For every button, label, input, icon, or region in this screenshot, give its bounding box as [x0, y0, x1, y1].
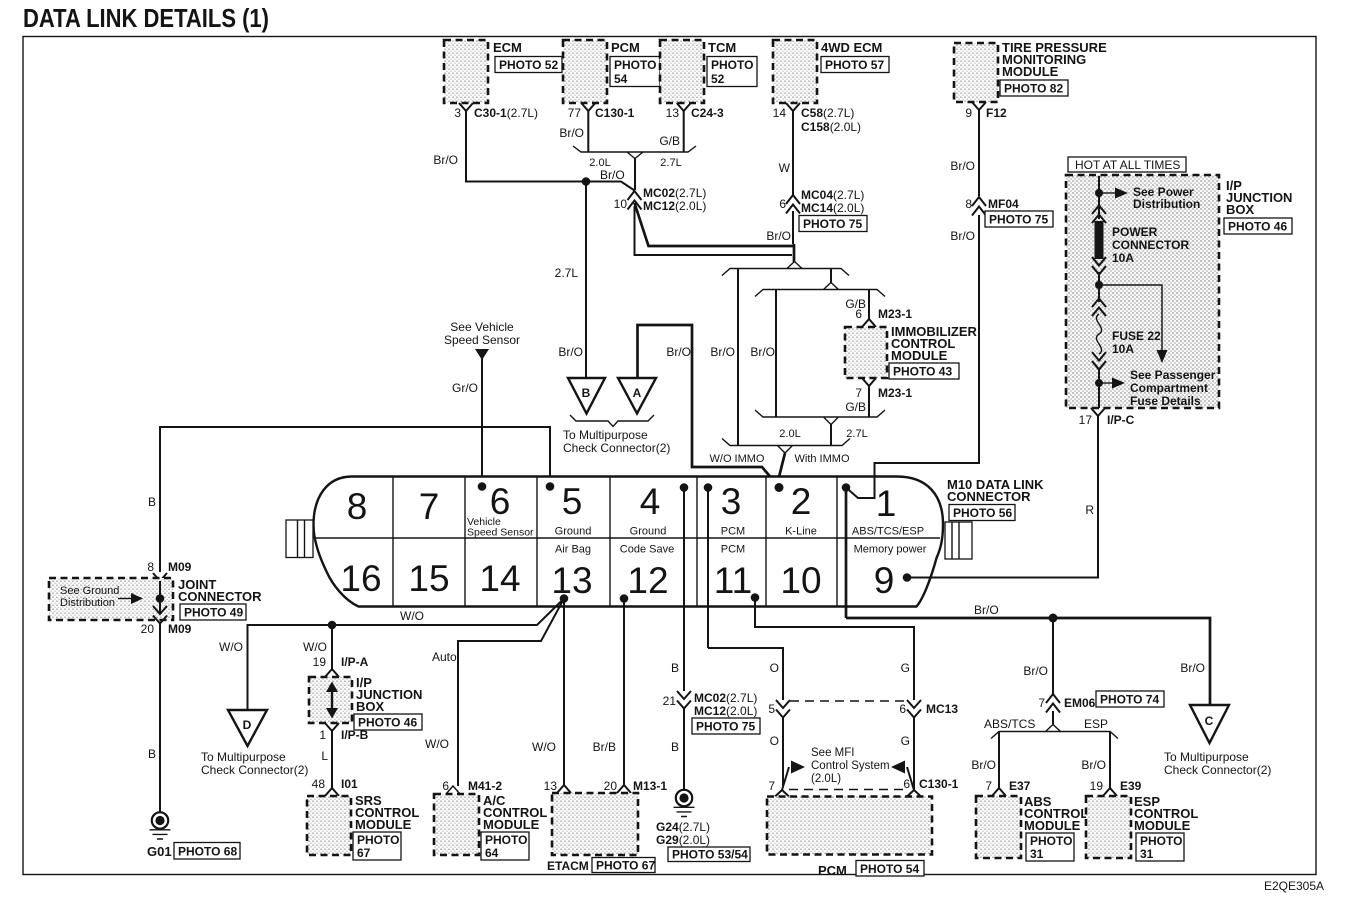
- svg-text:PHOTO 75: PHOTO 75: [989, 213, 1048, 227]
- svg-text:Br/O: Br/O: [433, 153, 458, 167]
- svg-text:11: 11: [714, 560, 752, 601]
- PCM G wire pin 11: [755, 598, 914, 701]
- wire to ground G24: [683, 708, 685, 790]
- svg-text:PHOTO: PHOTO: [1140, 834, 1182, 848]
- dashed 2.0L link 5 to 6: [790, 700, 906, 702]
- pin 19 I/P-A: [313, 655, 369, 677]
- svg-text:MC02(2.7L): MC02(2.7L): [694, 691, 757, 705]
- svg-text:Br/O: Br/O: [974, 603, 999, 617]
- svg-text:54: 54: [614, 72, 628, 86]
- wire dot to MC02: [586, 182, 635, 191]
- ABS control module box: [976, 794, 1088, 861]
- svg-text:PHOTO 75: PHOTO 75: [696, 720, 755, 734]
- code save wire to M13-1: [593, 599, 624, 786]
- Br/O memory power bottom line: [846, 603, 1210, 705]
- ECM module box: [444, 40, 562, 103]
- pin 4 wire through connector: [683, 488, 685, 692]
- svg-text:7: 7: [985, 779, 992, 793]
- svg-text:2.0L: 2.0L: [779, 428, 800, 440]
- svg-text:PCM: PCM: [611, 40, 640, 55]
- svg-text:Br/O: Br/O: [1023, 664, 1048, 678]
- svg-text:MC12(2.0L): MC12(2.0L): [643, 199, 706, 213]
- svg-text:4WD ECM: 4WD ECM: [821, 40, 882, 55]
- svg-text:G24(2.7L): G24(2.7L): [656, 820, 710, 834]
- svg-text:PCM: PCM: [818, 863, 847, 878]
- wire MC04 down to split: [792, 211, 794, 244]
- svg-text:Br/O: Br/O: [766, 229, 791, 243]
- svg-text:MC12(2.0L): MC12(2.0L): [694, 704, 757, 718]
- svg-text:6: 6: [855, 307, 862, 321]
- svg-text:8: 8: [965, 197, 972, 211]
- svg-text:MC04(2.7L): MC04(2.7L): [801, 188, 864, 202]
- svg-text:7: 7: [768, 779, 775, 793]
- triangle A: [618, 378, 656, 414]
- inline connector 21 MC02/MC12 lower: [663, 691, 760, 734]
- pin 6 M41-2: [442, 779, 502, 794]
- 4WD ECM module box: [773, 40, 889, 103]
- svg-text:Speed Sensor: Speed Sensor: [444, 333, 520, 347]
- svg-text:Ground: Ground: [630, 526, 667, 538]
- svg-text:PHOTO 46: PHOTO 46: [1228, 220, 1287, 234]
- pin contact dots: [478, 482, 487, 491]
- TCM module box: [660, 40, 757, 103]
- svg-text:12: 12: [627, 560, 668, 601]
- svg-text:G01: G01: [147, 844, 172, 859]
- svg-text:MC14(2.0L): MC14(2.0L): [801, 201, 864, 215]
- svg-text:13: 13: [666, 106, 680, 120]
- svg-text:C24-3: C24-3: [691, 106, 724, 120]
- pin 48 I01: [312, 777, 358, 796]
- TPMS module box: [954, 40, 1107, 102]
- inline connector 5: [768, 700, 790, 718]
- PCM pin connector 77 C130-1: [568, 103, 635, 120]
- svg-text:Br/O: Br/O: [1180, 661, 1205, 675]
- pin 3 wire through connector: [707, 488, 709, 649]
- svg-text:PHOTO 43: PHOTO 43: [893, 365, 952, 379]
- branch to passenger fuse arrow down: [1099, 285, 1168, 363]
- svg-text:MODULE: MODULE: [1024, 818, 1081, 833]
- svg-text:HOT AT ALL TIMES: HOT AT ALL TIMES: [1075, 158, 1180, 172]
- svg-text:I/P-C: I/P-C: [1107, 413, 1135, 427]
- svg-text:M13-1: M13-1: [633, 779, 667, 793]
- engine option merge 2.0L/2.7L: [573, 146, 696, 190]
- triangle B: [568, 378, 605, 414]
- svg-text:See MFI: See MFI: [811, 747, 854, 759]
- svg-text:64: 64: [485, 846, 499, 860]
- svg-text:10A: 10A: [1112, 251, 1134, 265]
- svg-text:FUSE 22: FUSE 22: [1112, 329, 1161, 343]
- svg-text:Br/O: Br/O: [1081, 758, 1106, 772]
- svg-text:PHOTO: PHOTO: [485, 833, 527, 847]
- svg-text:PCM: PCM: [721, 526, 745, 538]
- svg-text:Br/O: Br/O: [950, 229, 975, 243]
- svg-text:To Multipurpose: To Multipurpose: [201, 750, 286, 764]
- wire below fuse: [1098, 368, 1100, 408]
- connector right key tab: [945, 522, 972, 559]
- joint connector box: [49, 577, 262, 620]
- svg-text:14: 14: [479, 558, 520, 599]
- inline connector 6 MC04/MC14: [779, 188, 867, 232]
- A/C control module box: [434, 793, 547, 860]
- svg-text:15: 15: [408, 558, 449, 599]
- svg-text:C130-1: C130-1: [595, 106, 635, 120]
- PCM O wire pin 3: [708, 648, 783, 700]
- air bag W/O harness wire: [219, 599, 564, 711]
- svg-text:E37: E37: [1009, 779, 1031, 793]
- svg-text:B: B: [671, 661, 679, 675]
- svg-text:MF04: MF04: [988, 197, 1019, 211]
- wire C130-1 Br/O: [559, 111, 588, 152]
- svg-text:W/O: W/O: [303, 640, 327, 654]
- svg-text:PHOTO 53/54: PHOTO 53/54: [672, 848, 748, 862]
- svg-text:MODULE: MODULE: [891, 348, 948, 363]
- svg-text:3: 3: [721, 481, 742, 522]
- wire to split brace 2: [830, 269, 832, 284]
- inline connector 8 M09: [147, 560, 191, 591]
- PCM module box: [563, 40, 660, 103]
- wire to I/P-A: [303, 621, 336, 669]
- svg-text:C130-1: C130-1: [919, 777, 959, 791]
- IP box internal wire top: [1098, 176, 1100, 219]
- split ABS/TCS ESP: [984, 711, 1118, 739]
- pin 1 I/P-B: [319, 723, 368, 742]
- wire A to K-line: [638, 325, 780, 487]
- HOT AT ALL TIMES label: [1068, 157, 1186, 172]
- svg-text:MODULE: MODULE: [483, 817, 540, 832]
- svg-text:R: R: [1085, 503, 1094, 517]
- svg-text:9: 9: [874, 560, 895, 601]
- M10 title: [947, 477, 1044, 521]
- svg-text:ECM: ECM: [493, 40, 522, 55]
- svg-text:O: O: [770, 734, 779, 748]
- pin 7 PCM: [768, 779, 789, 797]
- svg-text:31: 31: [1140, 847, 1154, 861]
- svg-text:Check Connector(2): Check Connector(2): [201, 763, 308, 777]
- merge brace W/O IMMO / With IMMO: [710, 439, 851, 466]
- svg-text:MC13: MC13: [926, 702, 958, 716]
- svg-text:PHOTO: PHOTO: [1030, 834, 1072, 848]
- svg-text:Br/O: Br/O: [750, 345, 775, 359]
- svg-text:E39: E39: [1120, 779, 1142, 793]
- wire B 2.7L: [555, 182, 586, 379]
- svg-text:MODULE: MODULE: [355, 817, 412, 832]
- svg-text:Br/O: Br/O: [710, 345, 735, 359]
- svg-text:14: 14: [773, 106, 787, 120]
- svg-text:20: 20: [141, 622, 155, 636]
- svg-text:I01: I01: [341, 777, 358, 791]
- ground G01: [147, 812, 240, 859]
- underbrace B A: [563, 415, 670, 455]
- svg-text:PHOTO 54: PHOTO 54: [860, 862, 919, 876]
- svg-text:E2QE305A: E2QE305A: [1264, 879, 1324, 893]
- inline connector 8 MF04: [950, 197, 1053, 243]
- svg-text:Br/O: Br/O: [971, 758, 996, 772]
- svg-text:CONNECTOR: CONNECTOR: [178, 589, 262, 604]
- I/P junction box small: [309, 675, 422, 730]
- svg-text:W: W: [779, 161, 791, 175]
- connector left key tab: [286, 520, 313, 558]
- svg-text:B: B: [671, 740, 679, 754]
- svg-text:PHOTO: PHOTO: [711, 58, 753, 72]
- svg-text:52: 52: [711, 72, 725, 86]
- triangle D: [201, 710, 308, 777]
- svg-text:C30-1(2.7L): C30-1(2.7L): [474, 106, 538, 120]
- TPMS pin connector 9 F12: [965, 102, 1007, 120]
- svg-text:M23-1: M23-1: [878, 307, 912, 321]
- svg-text:Speed Sensor: Speed Sensor: [467, 527, 534, 539]
- svg-text:F12: F12: [986, 106, 1007, 120]
- svg-text:Air Bag: Air Bag: [555, 544, 591, 556]
- svg-text:PHOTO: PHOTO: [614, 58, 656, 72]
- svg-text:13: 13: [551, 560, 592, 601]
- svg-text:PHOTO 67: PHOTO 67: [596, 859, 655, 873]
- svg-text:31: 31: [1030, 847, 1044, 861]
- wire to fuse junction: [1098, 272, 1100, 302]
- wire O to PCM pin 7: [770, 717, 783, 786]
- svg-text:Br/O: Br/O: [666, 345, 691, 359]
- svg-text:Br/B: Br/B: [593, 740, 616, 754]
- wire C24-3 G/B: [659, 111, 683, 152]
- inline connector 6 MC13: [899, 700, 958, 718]
- wire Br/O branch 2.0L: [750, 290, 776, 418]
- svg-text:MODULE: MODULE: [1002, 64, 1059, 79]
- svg-text:PHOTO 57: PHOTO 57: [825, 58, 884, 72]
- svg-text:5: 5: [562, 481, 583, 522]
- svg-text:W/O: W/O: [532, 740, 556, 754]
- pin 7 E37: [985, 779, 1030, 796]
- svg-text:D: D: [243, 718, 252, 732]
- svg-text:PHOTO 75: PHOTO 75: [803, 217, 862, 231]
- svg-text:Br/O: Br/O: [558, 345, 583, 359]
- svg-text:M09: M09: [168, 622, 192, 636]
- air bag wire to ETACM 13: [532, 599, 564, 786]
- ECM pin connector 3 C30-1: [454, 103, 538, 120]
- svg-text:W/O: W/O: [219, 640, 243, 654]
- svg-text:With IMMO: With IMMO: [795, 453, 850, 465]
- fuse 22 10A: [1092, 299, 1161, 370]
- ground wire B pin4 labels: [671, 661, 679, 754]
- svg-text:10: 10: [780, 560, 821, 601]
- pin 1 hook wire: [846, 215, 979, 498]
- TCM pin connector 13 C24-3: [666, 103, 724, 120]
- svg-text:13: 13: [544, 779, 558, 793]
- svg-text:Br/O: Br/O: [950, 159, 975, 173]
- svg-text:BOX: BOX: [1226, 202, 1255, 217]
- svg-text:19: 19: [1090, 779, 1104, 793]
- svg-text:To Multipurpose: To Multipurpose: [1164, 750, 1249, 764]
- svg-text:2.7L: 2.7L: [555, 266, 579, 280]
- svg-text:G/B: G/B: [845, 400, 866, 414]
- pin 20 M13-1: [604, 779, 668, 793]
- SRS control module box: [307, 793, 419, 860]
- pin 1 memory power down wire: [845, 488, 848, 619]
- svg-text:PHOTO 49: PHOTO 49: [184, 606, 243, 620]
- svg-text:Compartment: Compartment: [1130, 381, 1208, 395]
- triangle C: [1164, 705, 1271, 777]
- svg-text:Br/O: Br/O: [600, 168, 625, 182]
- vehicle speed sensor arrow: [444, 320, 520, 360]
- svg-text:6: 6: [903, 777, 910, 791]
- svg-text:PHOTO: PHOTO: [357, 833, 399, 847]
- svg-text:4: 4: [640, 481, 661, 522]
- merge brace 2.0L/2.7L with IMMO: [755, 410, 885, 440]
- svg-text:EM06: EM06: [1064, 696, 1096, 710]
- svg-text:21: 21: [663, 694, 677, 708]
- inline connector 10 MC02/MC12: [614, 186, 707, 213]
- wire Br/O to E37: [971, 732, 999, 789]
- svg-text:19: 19: [313, 655, 327, 669]
- svg-text:C58(2.7L): C58(2.7L): [801, 106, 854, 120]
- svg-text:C158(2.0L): C158(2.0L): [801, 120, 861, 134]
- svg-text:Gr/O: Gr/O: [452, 381, 478, 395]
- svg-text:B: B: [148, 747, 156, 761]
- ESP control module box: [1086, 794, 1198, 861]
- M10 data link connector body: [314, 477, 944, 607]
- see power distribution arrow: [1095, 185, 1200, 211]
- svg-text:MC02(2.7L): MC02(2.7L): [643, 186, 706, 200]
- power connector 10A: [1092, 206, 1189, 275]
- svg-text:2: 2: [791, 481, 812, 522]
- svg-text:PCM: PCM: [721, 544, 745, 556]
- svg-text:7: 7: [1038, 696, 1045, 710]
- svg-text:1: 1: [876, 483, 897, 524]
- wire ECM Br/O: [433, 111, 583, 182]
- svg-text:BOX: BOX: [356, 699, 385, 714]
- split brace 1: [722, 262, 849, 276]
- wire B to G01: [148, 623, 160, 812]
- svg-text:M23-1: M23-1: [878, 386, 912, 400]
- svg-text:I/P-A: I/P-A: [341, 655, 369, 669]
- svg-text:G/B: G/B: [659, 134, 680, 148]
- svg-text:6: 6: [899, 702, 906, 716]
- wire Br/O to E39: [1081, 732, 1110, 789]
- svg-text:B: B: [582, 386, 591, 400]
- svg-text:DATA LINK DETAILS (1): DATA LINK DETAILS (1): [23, 3, 269, 33]
- svg-text:W/O IMMO: W/O IMMO: [710, 453, 765, 465]
- svg-text:Code Save: Code Save: [620, 544, 674, 556]
- wire G/B to immobilizer: [845, 290, 869, 320]
- svg-text:TCM: TCM: [708, 40, 736, 55]
- svg-text:B: B: [148, 495, 156, 509]
- svg-text:ESP: ESP: [1084, 717, 1108, 731]
- svg-text:6: 6: [442, 779, 449, 793]
- pin 6 M23-1: [855, 307, 912, 327]
- svg-text:PHOTO 74: PHOTO 74: [1100, 693, 1159, 707]
- pin 9 wire R: [907, 416, 1098, 578]
- svg-text:6: 6: [779, 197, 786, 211]
- svg-text:G: G: [901, 661, 910, 675]
- pin 6 C130-1 PCM: [903, 777, 958, 797]
- svg-text:A: A: [633, 386, 642, 400]
- svg-text:3: 3: [454, 106, 461, 120]
- svg-text:Memory power: Memory power: [854, 544, 927, 556]
- svg-text:10A: 10A: [1112, 342, 1134, 356]
- junction dot Br/O node: [582, 168, 625, 186]
- wire to EM06: [1023, 618, 1053, 695]
- svg-text:(2.0L): (2.0L): [811, 773, 841, 785]
- svg-text:G: G: [901, 734, 910, 748]
- svg-text:CONNECTOR: CONNECTOR: [947, 489, 1031, 504]
- wire VSS Gr/O: [452, 357, 482, 486]
- svg-text:M41-2: M41-2: [468, 779, 502, 793]
- svg-text:Check Connector(2): Check Connector(2): [1164, 763, 1271, 777]
- svg-text:Control System: Control System: [811, 760, 890, 772]
- see passenger arrow right: [1095, 368, 1216, 408]
- svg-text:See Vehicle: See Vehicle: [450, 320, 514, 334]
- svg-text:8: 8: [147, 560, 154, 574]
- svg-text:10: 10: [614, 197, 628, 211]
- svg-text:G29(2.0L): G29(2.0L): [656, 833, 710, 847]
- wire C58 W: [779, 111, 793, 195]
- svg-text:Ground: Ground: [555, 526, 592, 538]
- svg-text:48: 48: [312, 777, 326, 791]
- wire F12 Br/O: [950, 110, 979, 196]
- pin 13 ETACM: [544, 779, 571, 793]
- svg-text:Br/O: Br/O: [559, 126, 584, 140]
- svg-text:8: 8: [347, 486, 368, 527]
- 4WD pin connector 14 C58/C158: [773, 103, 861, 134]
- svg-text:20: 20: [604, 779, 618, 793]
- svg-text:7: 7: [855, 386, 862, 400]
- svg-text:Distribution: Distribution: [1133, 197, 1200, 211]
- ground G24/G29: [656, 790, 750, 862]
- wire merge to W/O brace: [830, 425, 832, 446]
- svg-text:77: 77: [568, 106, 582, 120]
- svg-text:PHOTO 52: PHOTO 52: [499, 58, 558, 72]
- svg-text:ETACM: ETACM: [547, 859, 589, 873]
- svg-text:MODULE: MODULE: [1134, 818, 1191, 833]
- svg-text:K-Line: K-Line: [785, 526, 817, 538]
- svg-text:C: C: [1205, 714, 1214, 728]
- pin 7 M23-1: [855, 378, 912, 400]
- svg-text:CONNECTOR: CONNECTOR: [1112, 238, 1189, 252]
- svg-text:I/P-B: I/P-B: [341, 728, 369, 742]
- svg-text:Fuse Details: Fuse Details: [1130, 394, 1201, 408]
- svg-text:PHOTO 82: PHOTO 82: [1004, 82, 1063, 96]
- I/P junction box (power): [1066, 175, 1292, 408]
- split brace 2: [755, 283, 885, 297]
- pin 17 I/P-C: [1079, 408, 1135, 427]
- PCM box bottom: [767, 797, 932, 879]
- svg-text:17: 17: [1079, 413, 1093, 427]
- wire G/B below immobilizer: [845, 386, 869, 417]
- svg-text:W/O: W/O: [400, 609, 424, 623]
- svg-text:POWER: POWER: [1112, 225, 1158, 239]
- svg-text:L: L: [321, 749, 328, 763]
- inline connector 20 M09: [141, 606, 192, 636]
- left ground feed wire B: [148, 427, 550, 572]
- svg-text:See Passenger: See Passenger: [1130, 368, 1216, 382]
- svg-text:ABS/TCS: ABS/TCS: [984, 717, 1035, 731]
- inline connector 7 EM06: [1038, 691, 1164, 713]
- svg-text:ABS/TCS/ESP: ABS/TCS/ESP: [852, 526, 924, 538]
- immobilizer control module box: [845, 324, 978, 379]
- air bag Auto wire to M41-2: [425, 599, 564, 787]
- svg-text:O: O: [770, 661, 779, 675]
- svg-text:Distribution: Distribution: [60, 597, 115, 609]
- svg-text:9: 9: [965, 106, 972, 120]
- wire L to I01: [321, 731, 332, 788]
- svg-text:PHOTO 56: PHOTO 56: [953, 506, 1012, 520]
- wire MC02 to bus (two parallel): [635, 203, 794, 255]
- svg-text:W/O: W/O: [425, 737, 449, 751]
- svg-text:To Multipurpose: To Multipurpose: [563, 428, 648, 442]
- see MFI control system note: [782, 747, 914, 790]
- svg-text:67: 67: [357, 846, 371, 860]
- svg-text:Check Connector(2): Check Connector(2): [563, 441, 670, 455]
- svg-text:Auto: Auto: [432, 650, 457, 664]
- svg-text:See Ground: See Ground: [60, 585, 119, 597]
